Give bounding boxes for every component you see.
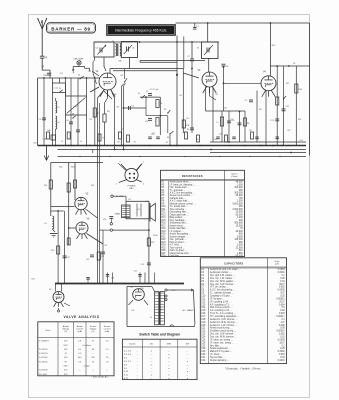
svg-text:C17: C17 xyxy=(249,130,252,132)
svg-text:Cath. by-pass ....: Cath. by-pass .... xyxy=(170,249,188,252)
svg-text:0.003: 0.003 xyxy=(279,313,285,315)
svg-text:0.01: 0.01 xyxy=(280,281,285,283)
svg-text:Tone control ....: Tone control .... xyxy=(170,246,186,249)
svg-text:C18: C18 xyxy=(286,106,289,108)
svg-text:R13: R13 xyxy=(151,242,154,244)
svg-text:C17: C17 xyxy=(201,316,206,318)
svg-text:0.0005: 0.0005 xyxy=(278,339,286,341)
svg-text:S5: S5 xyxy=(138,93,140,95)
svg-text:R20: R20 xyxy=(161,234,166,236)
svg-text:Diode load filter ....: Diode load filter .... xyxy=(170,227,190,230)
svg-text:C24: C24 xyxy=(111,278,114,280)
svg-text:(mA): (mA) xyxy=(77,330,82,333)
svg-text:R15: R15 xyxy=(286,83,289,85)
svg-text:Current: Current xyxy=(104,328,111,331)
svg-text:R13: R13 xyxy=(161,214,166,216)
svg-text:A.C. MAINS: A.C. MAINS xyxy=(183,309,194,312)
svg-text:40,000: 40,000 xyxy=(236,231,244,233)
svg-text:R15: R15 xyxy=(161,220,166,222)
svg-text:Output: Output xyxy=(84,365,91,368)
svg-text:0.0005: 0.0005 xyxy=(278,290,286,292)
svg-text:BARKER — 89: BARKER — 89 xyxy=(51,26,91,31)
svg-text:A.F. coupling to T.L. ....: A.F. coupling to T.L. .... xyxy=(210,303,234,306)
svg-text:V.1 6K8GT: V.1 6K8GT xyxy=(39,341,50,343)
svg-text:C19: C19 xyxy=(152,133,155,135)
svg-text:Part of tone control ....: Part of tone control .... xyxy=(210,306,233,309)
svg-text:C18: C18 xyxy=(287,130,290,132)
svg-text:—: — xyxy=(168,371,170,373)
svg-text:Valve: Valve xyxy=(45,330,51,332)
svg-text:T4 to T.L. A.F. coupling ....: T4 to T.L. A.F. coupling .... xyxy=(210,312,237,315)
svg-text:V.3 6Q7G: V.3 6Q7G xyxy=(39,353,48,355)
svg-text:4: 4 xyxy=(143,183,144,185)
svg-text:V.4 6V6G: V.4 6V6G xyxy=(39,357,48,359)
svg-text:10,000: 10,000 xyxy=(236,212,244,214)
svg-text:0.0002: 0.0002 xyxy=(278,351,286,353)
svg-text:R9: R9 xyxy=(247,123,249,125)
svg-text:C12: C12 xyxy=(224,108,227,110)
svg-text:S.1, S.2: S.1, S.2 xyxy=(124,351,132,353)
svg-text:0.0003†: 0.0003† xyxy=(276,331,285,333)
svg-text:—: — xyxy=(186,368,188,370)
svg-text:—: — xyxy=(186,357,188,359)
svg-text:—: — xyxy=(186,375,188,377)
svg-text:16.0*: 16.0* xyxy=(279,342,284,344)
svg-text:R26: R26 xyxy=(161,250,166,252)
svg-text:R4: R4 xyxy=(117,107,119,109)
svg-text:C28: C28 xyxy=(131,310,134,312)
svg-text:Screen feed resistor ....: Screen feed resistor .... xyxy=(170,194,194,197)
svg-text:C22: C22 xyxy=(201,331,206,333)
svg-text:(mA): (mA) xyxy=(105,330,110,333)
svg-text:100,000: 100,000 xyxy=(234,187,243,189)
svg-text:C23: C23 xyxy=(201,334,206,336)
svg-text:C14: C14 xyxy=(141,264,144,266)
svg-text:Het. filter ....: Het. filter .... xyxy=(210,344,223,347)
svg-text:S10: S10 xyxy=(172,290,175,292)
svg-text:R23: R23 xyxy=(161,242,166,244)
svg-text:VALVE ANALYSIS: VALVE ANALYSIS xyxy=(63,315,99,319)
svg-text:C10: C10 xyxy=(145,121,148,123)
svg-text:A.V.C. line decoupling ....: A.V.C. line decoupling .... xyxy=(170,192,196,195)
svg-text:L7: L7 xyxy=(217,122,219,124)
svg-text:I.F. trans. sec. tuning ....: I.F. trans. sec. tuning .... xyxy=(210,341,235,344)
svg-text:Osc. circ. S.W. trimmer ....: Osc. circ. S.W. trimmer .... xyxy=(210,333,237,336)
svg-text:C21: C21 xyxy=(104,245,107,247)
svg-text:R14: R14 xyxy=(300,140,303,142)
svg-text:Oscillator circuit tuning ....: Oscillator circuit tuning .... xyxy=(210,330,237,333)
svg-text:V.2 6K7G: V.2 6K7G xyxy=(39,349,48,351)
svg-text:C27: C27 xyxy=(201,345,206,347)
svg-text:Osc. grid S.W. tracker ....: Osc. grid S.W. tracker .... xyxy=(210,274,236,277)
svg-text:R19: R19 xyxy=(161,231,166,233)
svg-text:2: 2 xyxy=(116,184,117,186)
svg-text:8,000: 8,000 xyxy=(237,236,243,238)
svg-text:95,000: 95,000 xyxy=(236,256,244,258)
svg-text:Decoupling filter ....: Decoupling filter .... xyxy=(170,211,190,214)
svg-text:C10: C10 xyxy=(201,296,206,298)
svg-text:—: — xyxy=(150,368,152,370)
svg-text:Heater shunt ....: Heater shunt .... xyxy=(170,224,187,227)
svg-text:* Electrolytic. † Variable.: * Electrolytic. † Variable. ‡ Re-set. xyxy=(225,368,261,371)
svg-text:0.04: 0.04 xyxy=(280,357,285,359)
svg-text:—: — xyxy=(168,361,170,363)
svg-text:H.T. smoothing capacitors ....: H.T. smoothing capacitors .... xyxy=(210,315,240,318)
svg-text:T.L. cathode by-pass ....: T.L. cathode by-pass .... xyxy=(210,292,235,295)
svg-text:1: 1 xyxy=(120,162,121,164)
svg-text:R27: R27 xyxy=(161,253,166,255)
svg-text:—: — xyxy=(168,364,170,366)
svg-text:100†: 100† xyxy=(63,345,68,347)
svg-text:1,500: 1,500 xyxy=(237,201,243,203)
svg-text:0.05: 0.05 xyxy=(280,328,285,330)
svg-text:C26: C26 xyxy=(201,342,206,344)
svg-text:C12: C12 xyxy=(201,301,206,303)
svg-text:48,000: 48,000 xyxy=(236,182,244,184)
svg-text:Tone corrector ....: Tone corrector .... xyxy=(170,208,188,211)
svg-text:Voltage: Voltage xyxy=(90,328,98,331)
svg-text:310†: 310† xyxy=(63,366,68,368)
svg-text:C5: C5 xyxy=(146,91,148,93)
svg-text:1,850: 1,850 xyxy=(237,253,243,255)
svg-text:—: — xyxy=(186,351,188,353)
svg-text:S8: S8 xyxy=(167,137,169,139)
svg-text:R25: R25 xyxy=(161,247,166,249)
svg-text:Cathode bias ....: Cathode bias .... xyxy=(170,197,187,200)
svg-text:C15: C15 xyxy=(186,118,189,120)
svg-text:A.V.C. diode load ....: A.V.C. diode load .... xyxy=(170,200,191,203)
svg-text:3: 3 xyxy=(143,162,144,164)
svg-text:R14: R14 xyxy=(298,119,301,121)
svg-text:C18: C18 xyxy=(201,319,206,321)
svg-text:2,000,000: 2,000,000 xyxy=(232,209,243,211)
svg-text:I.F. trans. pri. damping ....: I.F. trans. pri. damping .... xyxy=(170,183,196,186)
svg-text:C28: C28 xyxy=(201,348,206,350)
svg-text:C12: C12 xyxy=(89,119,92,121)
svg-text:I.F. stopper ....: I.F. stopper .... xyxy=(170,230,185,233)
svg-text:A.V.C. line decoupling ....: A.V.C. line decoupling .... xyxy=(210,289,236,292)
svg-text:Osc. circ. L.W. tracker ....: Osc. circ. L.W. tracker .... xyxy=(210,277,236,280)
svg-text:C22: C22 xyxy=(67,257,70,259)
svg-text:C13: C13 xyxy=(270,120,273,122)
svg-text:R8: R8 xyxy=(216,94,218,96)
svg-text:Osc. circ. M.W. trimmer ....: Osc. circ. M.W. trimmer .... xyxy=(210,336,237,339)
svg-text:Screen dropper ....: Screen dropper .... xyxy=(170,235,189,238)
svg-text:Aerial circuit shunt ....: Aerial circuit shunt .... xyxy=(170,181,192,184)
svg-text:R21: R21 xyxy=(161,236,166,238)
svg-text:S3: S3 xyxy=(72,114,74,116)
svg-text:S.6, S.7: S.6, S.7 xyxy=(124,361,132,363)
svg-text:Smoothing field ....: Smoothing field .... xyxy=(170,222,189,225)
svg-text:3,300: 3,300 xyxy=(237,245,243,247)
svg-text:C21: C21 xyxy=(86,259,89,261)
svg-text:8.0*: 8.0* xyxy=(281,293,285,295)
svg-text:L1 L2: L1 L2 xyxy=(54,88,59,90)
svg-text:500,000: 500,000 xyxy=(234,193,243,195)
svg-text:Aerial circ. M.W. trimmer ....: Aerial circ. M.W. trimmer .... xyxy=(210,321,239,324)
svg-text:—: — xyxy=(186,354,188,356)
svg-text:Aerial circ. S.W. trimmer ....: Aerial circ. S.W. trimmer .... xyxy=(210,318,238,321)
svg-text:0.0003: 0.0003 xyxy=(278,269,286,271)
svg-text:Neg. feedback ....: Neg. feedback .... xyxy=(170,220,188,222)
svg-text:R2: R2 xyxy=(103,138,105,140)
svg-text:Output grid leak ....: Output grid leak .... xyxy=(170,213,190,216)
svg-text:0.003: 0.003 xyxy=(279,354,285,356)
svg-text:C16: C16 xyxy=(201,313,206,315)
svg-text:25,000: 25,000 xyxy=(236,195,244,197)
svg-text:Aerial pad. divider ....: Aerial pad. divider .... xyxy=(210,271,232,274)
svg-text:R16: R16 xyxy=(298,89,301,91)
svg-text:Intermediate Frequency 465 Kc/: Intermediate Frequency 465 Kc/s. xyxy=(115,29,168,33)
svg-text:L5: L5 xyxy=(58,107,60,109)
svg-text:Osc. grid leak ....: Osc. grid leak .... xyxy=(170,238,188,241)
svg-text:T.L. anode load ....: T.L. anode load .... xyxy=(170,206,189,208)
svg-text:DIAL LAMP: DIAL LAMP xyxy=(74,58,85,61)
svg-text:T.L. grid leak ....: T.L. grid leak .... xyxy=(170,189,187,192)
svg-text:P.E. 468: P.E. 468 xyxy=(39,374,47,376)
svg-text:0.25: 0.25 xyxy=(280,296,285,298)
svg-text:(Ohms): (Ohms) xyxy=(231,176,238,178)
svg-text:(V): (V) xyxy=(64,331,67,333)
svg-text:S6: S6 xyxy=(164,109,166,111)
svg-text:R28: R28 xyxy=(161,256,166,258)
svg-text:GRAM: GRAM xyxy=(115,213,121,216)
svg-text:Pick-up shunt ....: Pick-up shunt .... xyxy=(170,241,187,244)
svg-text:0.01: 0.01 xyxy=(280,337,285,339)
svg-text:C8: C8 xyxy=(226,66,228,68)
svg-text:I.F. by-pass ....: I.F. by-pass .... xyxy=(210,298,225,300)
svg-text:0.002: 0.002 xyxy=(279,287,285,289)
svg-text:R18: R18 xyxy=(161,228,166,230)
svg-text:V.6 6X5G: V.6 6X5G xyxy=(39,370,48,372)
svg-text:L6: L6 xyxy=(58,122,60,124)
svg-text:4.0*: 4.0* xyxy=(281,322,285,324)
svg-text:C11: C11 xyxy=(201,298,206,300)
svg-text:C27: C27 xyxy=(166,283,169,285)
svg-text:—: — xyxy=(150,354,152,356)
svg-text:T4: T4 xyxy=(150,317,152,319)
svg-text:0.0001: 0.0001 xyxy=(278,360,286,362)
svg-text:C3: C3 xyxy=(39,119,41,121)
svg-text:R16: R16 xyxy=(161,223,166,225)
svg-text:0.002: 0.002 xyxy=(279,334,285,336)
svg-text:C32: C32 xyxy=(201,360,206,362)
svg-text:L4: L4 xyxy=(80,141,82,143)
svg-text:Aerial M.W. and L.W. coupl ...: Aerial M.W. and L.W. coupl .... xyxy=(210,268,241,271)
svg-text:0.004: 0.004 xyxy=(279,304,285,306)
svg-text:Mains R.F. by-pass ....: Mains R.F. by-pass .... xyxy=(210,351,233,353)
svg-text:0.006: 0.006 xyxy=(279,325,285,327)
svg-text:C19: C19 xyxy=(201,322,206,324)
svg-text:C14: C14 xyxy=(201,307,206,309)
svg-text:R17: R17 xyxy=(161,225,166,227)
svg-text:R18: R18 xyxy=(71,167,74,169)
svg-text:R21: R21 xyxy=(32,279,35,281)
svg-text:R24: R24 xyxy=(161,245,166,247)
svg-text:—: — xyxy=(150,371,152,373)
svg-text:R18: R18 xyxy=(91,185,94,187)
svg-text:CAPACITORS: CAPACITORS xyxy=(224,262,243,265)
svg-text:50.0*: 50.0* xyxy=(279,284,284,286)
svg-text:V.5 6K7G: V.5 6K7G xyxy=(39,361,48,363)
svg-text:Osc. anode feed ....: Osc. anode feed .... xyxy=(170,187,190,189)
svg-text:0.0002‡: 0.0002‡ xyxy=(276,298,285,300)
svg-text:R17: R17 xyxy=(101,256,104,258)
svg-text:Output damping ....: Output damping .... xyxy=(210,359,230,362)
svg-text:C15: C15 xyxy=(201,310,206,312)
svg-text:Voltage: Voltage xyxy=(62,328,70,331)
svg-text:—: — xyxy=(186,364,188,366)
svg-text:C21: C21 xyxy=(201,328,206,330)
svg-text:S.3, S.4: S.3, S.4 xyxy=(124,354,132,356)
svg-text:C13: C13 xyxy=(201,304,206,306)
svg-text:L8: L8 xyxy=(45,223,47,225)
svg-text:Screen: Screen xyxy=(104,325,111,328)
svg-text:R14: R14 xyxy=(161,217,166,219)
svg-text:0.25: 0.25 xyxy=(280,348,285,350)
svg-text:C20: C20 xyxy=(201,325,206,327)
svg-text:C15: C15 xyxy=(219,134,222,136)
svg-text:C13: C13 xyxy=(117,142,120,144)
svg-text:1.0 1.5 µF: 1.0 1.5 µF xyxy=(150,89,159,91)
svg-text:Aerial circuit tuning ....: Aerial circuit tuning .... xyxy=(210,327,233,330)
svg-text:1,200: 1,200 xyxy=(237,217,243,219)
svg-text:H.T. feed ....: H.T. feed .... xyxy=(170,245,183,247)
svg-text:I.F. trans. pri. tuning ....: I.F. trans. pri. tuning .... xyxy=(210,338,234,341)
svg-text:0.0001†: 0.0001† xyxy=(276,316,285,318)
svg-text:Bias resistor ....: Bias resistor .... xyxy=(170,216,186,219)
svg-text:I.F. coupling to V4 ....: I.F. coupling to V4 .... xyxy=(210,300,232,303)
svg-text:P1: P1 xyxy=(160,310,162,312)
svg-text:Anode decoupling ....: Anode decoupling .... xyxy=(170,233,192,236)
svg-text:R12: R12 xyxy=(161,212,166,214)
svg-text:Oscillator: Oscillator xyxy=(82,344,91,347)
svg-text:C16: C16 xyxy=(214,139,217,141)
svg-text:C16: C16 xyxy=(134,271,137,273)
svg-text:R7: R7 xyxy=(166,142,168,144)
svg-text:R11: R11 xyxy=(44,185,47,187)
svg-text:Screen: Screen xyxy=(90,325,97,328)
svg-text:C4: C4 xyxy=(66,120,68,122)
svg-text:C30: C30 xyxy=(201,354,206,356)
svg-text:PAC: PAC xyxy=(129,187,134,190)
svg-text:15,000: 15,000 xyxy=(236,225,244,227)
svg-text:Aerial circ. L.W. trimmer ....: Aerial circ. L.W. trimmer .... xyxy=(210,324,238,327)
svg-text:A.F. coupling to V4 ....: A.F. coupling to V4 .... xyxy=(210,309,233,312)
svg-text:S1: S1 xyxy=(78,75,80,77)
svg-text:—: — xyxy=(150,357,152,359)
svg-text:(V): (V) xyxy=(92,331,95,333)
svg-text:Spark suppressor ....: Spark suppressor .... xyxy=(210,347,232,350)
svg-text:60,000: 60,000 xyxy=(236,214,244,216)
svg-text:V.C.: V.C. xyxy=(137,209,141,211)
svg-text:C9: C9 xyxy=(245,100,247,102)
svg-text:Current: Current xyxy=(76,328,83,331)
svg-text:R12: R12 xyxy=(259,109,262,111)
svg-text:R8: R8 xyxy=(187,129,189,131)
svg-text:R22: R22 xyxy=(161,239,166,241)
svg-text:R6: R6 xyxy=(180,95,182,97)
svg-text:Switch: Switch xyxy=(129,342,136,345)
svg-text:Anode: Anode xyxy=(63,325,70,328)
svg-text:RESISTANCES: RESISTANCES xyxy=(182,175,203,178)
svg-text:Osc. circ. M.W. padder ....: Osc. circ. M.W. padder .... xyxy=(210,280,237,283)
svg-text:0.05: 0.05 xyxy=(280,278,285,280)
svg-text:Values: Values xyxy=(231,174,237,176)
svg-text:—: — xyxy=(168,351,170,353)
svg-text:C24: C24 xyxy=(103,219,106,221)
svg-text:I.F.T. pri. tuning ....: I.F.T. pri. tuning .... xyxy=(210,286,229,289)
svg-text:C16: C16 xyxy=(231,120,234,122)
svg-text:(µF): (µF) xyxy=(275,264,279,266)
svg-text:C31: C31 xyxy=(201,357,206,359)
svg-text:22,000: 22,000 xyxy=(236,247,244,249)
svg-text:C29: C29 xyxy=(201,351,206,353)
svg-text:C4: C4 xyxy=(132,106,134,108)
svg-text:S4: S4 xyxy=(121,75,123,77)
svg-text:—: — xyxy=(150,361,152,363)
svg-text:Coupling to V3 grid ....: Coupling to V3 grid .... xyxy=(210,295,233,298)
svg-text:Switch Table and Diagram: Switch Table and Diagram xyxy=(139,332,180,336)
svg-text:R10: R10 xyxy=(161,206,166,208)
svg-text:Top-cut filter ....: Top-cut filter .... xyxy=(210,356,226,359)
svg-text:S9: S9 xyxy=(134,142,136,144)
svg-text:S11: S11 xyxy=(60,73,63,75)
svg-text:C24: C24 xyxy=(201,337,206,339)
svg-text:0.02: 0.02 xyxy=(280,310,285,312)
svg-text:C25: C25 xyxy=(201,339,206,341)
svg-text:R20: R20 xyxy=(59,167,62,169)
svg-text:0.0001: 0.0001 xyxy=(278,272,286,274)
svg-text:R19: R19 xyxy=(51,250,54,252)
svg-text:R7: R7 xyxy=(121,129,123,131)
svg-text:125,000: 125,000 xyxy=(234,239,243,241)
svg-text:† Both anode, A.C.: † Both anode, A.C. xyxy=(91,376,109,379)
svg-text:5,000,000: 5,000,000 xyxy=(232,203,243,205)
svg-text:S2: S2 xyxy=(59,88,61,90)
svg-text:Manual volume control ....: Manual volume control .... xyxy=(170,202,197,205)
svg-text:L3: L3 xyxy=(61,141,63,143)
svg-text:Anode: Anode xyxy=(77,325,84,328)
svg-text:1,000: 1,000 xyxy=(237,184,243,186)
svg-text:—: — xyxy=(150,378,152,380)
svg-text:C7: C7 xyxy=(197,26,199,28)
svg-text:25.0*: 25.0* xyxy=(279,301,284,303)
svg-text:Grid filter ....: Grid filter .... xyxy=(170,255,183,258)
svg-text:C8: C8 xyxy=(293,63,295,65)
svg-text:900,000: 900,000 xyxy=(234,223,243,225)
svg-text:Output anode stop ....: Output anode stop .... xyxy=(170,252,192,255)
svg-text:V8: V8 xyxy=(49,289,51,291)
svg-text:I.F. shunt ....: I.F. shunt .... xyxy=(210,353,223,356)
svg-text:Osc. circ. S.W. trimmer ....: Osc. circ. S.W. trimmer .... xyxy=(210,283,237,286)
svg-text:R10: R10 xyxy=(272,45,275,47)
svg-text:R11: R11 xyxy=(161,209,166,211)
